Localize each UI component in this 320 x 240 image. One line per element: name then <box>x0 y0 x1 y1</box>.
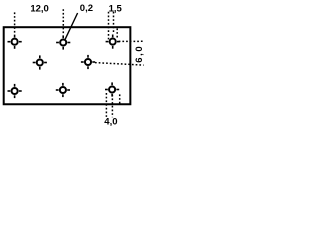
hole A3 <box>106 35 120 49</box>
svg-text:4,0: 4,0 <box>104 117 117 127</box>
hole A2 <box>56 35 70 49</box>
hole C1 <box>8 84 22 98</box>
plate outline rectangle <box>4 27 131 104</box>
extension line (dotted) 6,0 bottom <box>95 63 144 66</box>
extension line (dotted) 1,5 left <box>108 12 110 40</box>
svg-text:0,2: 0,2 <box>80 3 93 14</box>
extension line (dotted) at hole A1 x=14.6 <box>14 12 16 33</box>
hole A1 <box>8 35 22 49</box>
hole B2 <box>81 55 95 69</box>
hole C3 <box>105 82 119 96</box>
extension line (dotted) 4,0 right <box>111 95 113 118</box>
short inner dotted line near hole C3 <box>119 94 121 104</box>
svg-text:1,5: 1,5 <box>109 3 123 14</box>
short inner dotted line near hole A3 <box>116 28 118 38</box>
hole B1 <box>33 55 47 69</box>
extension line (dotted) at hole A2 x=63.3 <box>62 9 64 34</box>
svg-text:12,0: 12,0 <box>30 3 49 14</box>
extension line (dotted) 6,0 top <box>119 40 143 42</box>
hole C2 <box>56 83 70 97</box>
extension line (dotted) 4,0 left <box>105 93 107 117</box>
svg-text:6,0: 6,0 <box>134 45 145 63</box>
extension line (dotted) 1,5 right <box>113 12 115 34</box>
leader line for 0,2 <box>65 13 77 39</box>
